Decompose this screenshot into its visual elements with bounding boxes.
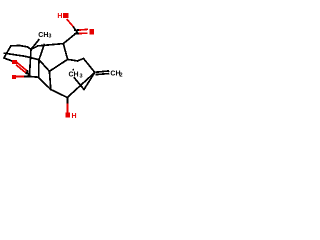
wire C10 horizontal right	[29, 75, 38, 78]
node O of bottom OH label (red square)	[65, 113, 70, 118]
svg-text:CH: CH	[38, 32, 48, 39]
wire vertical C4-C19-C10	[29, 49, 31, 76]
svg-text:2: 2	[120, 73, 123, 79]
wire C=O lower red part	[80, 32, 87, 34]
wire lactone O-C10 black part	[23, 75, 29, 77]
wire lactone C=O double red line 2	[17, 65, 26, 72]
wire carbonyl C elbow	[27, 71, 29, 76]
wire V2 to V4	[49, 59, 67, 71]
wire carboxyl OH bond black half	[73, 26, 78, 32]
wire V3 to V2	[39, 60, 49, 72]
wire carboxyl OH bond red half	[67, 20, 73, 26]
node lactone ring O (red square)	[12, 75, 16, 79]
wire C16 to C15	[84, 72, 95, 89]
node O of top HO label (red square glyph)	[63, 13, 68, 18]
wire bend to P1	[78, 59, 84, 61]
node lactone carbonyl O (red square)	[12, 60, 17, 64]
wire exocyclic double bond upper	[97, 71, 109, 72]
wire C=O upper red part	[80, 28, 87, 31]
svg-text:3: 3	[48, 34, 51, 40]
wire a1 to lactone O	[4, 58, 12, 61]
svg-text:CH: CH	[69, 72, 79, 79]
svg-text:H: H	[72, 113, 77, 120]
wire down-right to V6	[38, 77, 51, 89]
wire P1 down to C16	[84, 59, 95, 73]
wire V3 vertical down	[38, 60, 40, 77]
wire lactone C=O double red line 1	[17, 63, 26, 70]
wire roof to C4	[20, 46, 32, 50]
wire OH bond black part	[66, 98, 68, 105]
wire C10 steep bond up to top edge	[39, 45, 44, 60]
wire C=O upper black part	[75, 29, 80, 31]
node carboxyl =O (red square glyph)	[89, 29, 94, 34]
wire OH bond red part	[66, 105, 68, 112]
wire ring A roof	[11, 45, 20, 47]
node CH3 label middle	[68, 71, 84, 78]
wire C15 to C8	[75, 78, 85, 90]
wire C9 to C8 bond (mostly hidden behind CH3 label)	[73, 69, 74, 78]
svg-text:H: H	[57, 13, 62, 20]
svg-text:3: 3	[80, 73, 83, 79]
wire C=O lower black part	[75, 33, 80, 35]
wire C6 horizontal left	[38, 44, 63, 46]
wire C6 to carboxyl C	[63, 32, 77, 43]
chemical structure drawing: diterpenoid acid with lactone, OH and exocyclic =CH2	[0, 0, 130, 130]
wire lactone C=O black tips	[26, 70, 28, 71]
wire V6 to B1	[51, 90, 68, 98]
wire exocyclic double bond lower	[96, 74, 108, 75]
wire V2 stem	[49, 71, 50, 89]
wire A to V1	[31, 46, 38, 50]
wire V4 up to C6	[63, 44, 67, 60]
wire C13 diagonal to C14	[67, 72, 95, 97]
wire bond C4 to CH3 label	[31, 40, 39, 50]
wire ring A left edge	[4, 46, 11, 58]
wire V4 right	[68, 59, 78, 61]
wire C1 to C10 rear bond	[4, 53, 39, 60]
wire lactone O-C10 red part	[16, 75, 23, 77]
